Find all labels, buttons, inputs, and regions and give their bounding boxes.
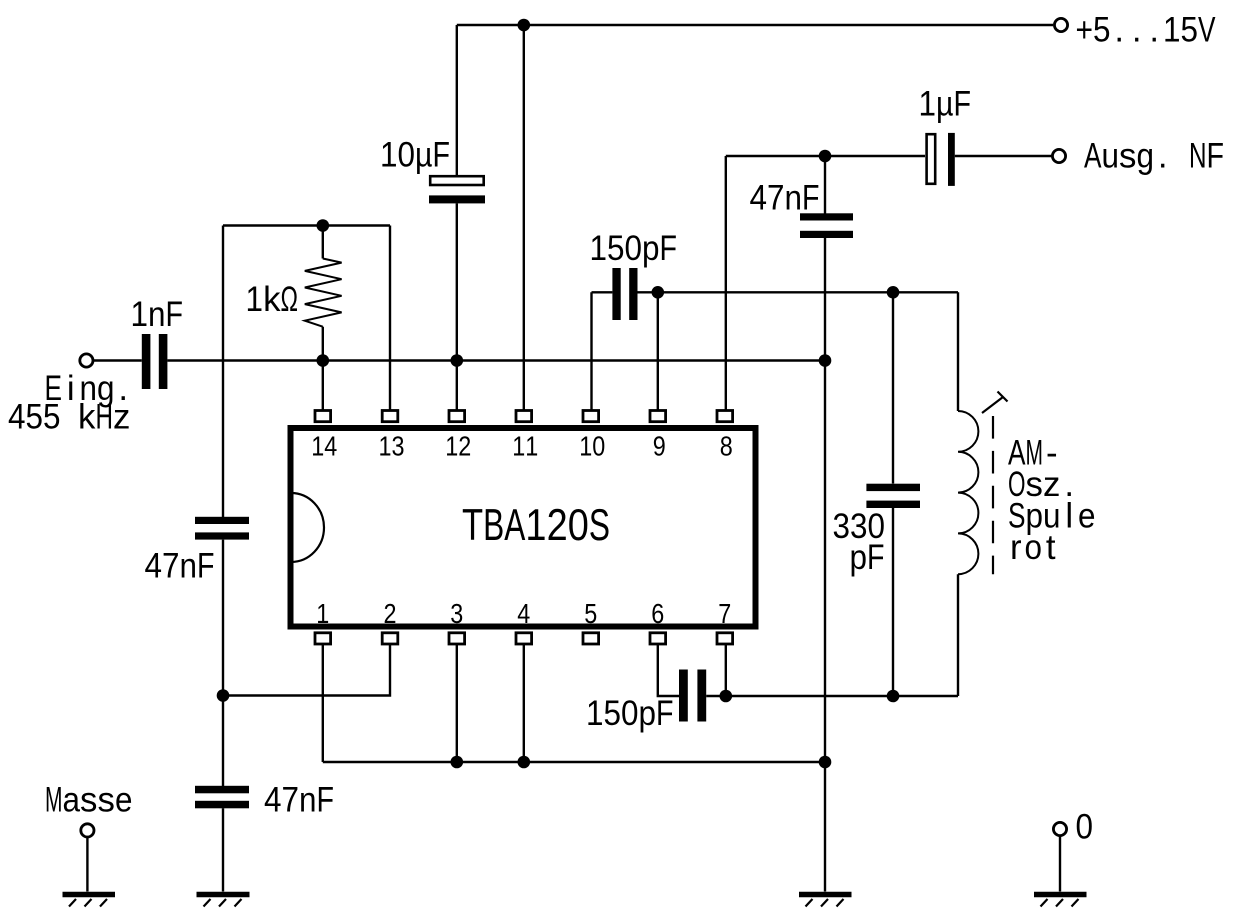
pin 9 square <box>650 411 666 422</box>
terminal 0 <box>1053 822 1066 835</box>
capacitor C 10uF electrolytic <box>429 176 485 203</box>
wire input rail y360 <box>167 359 825 361</box>
svg-text:150pF: 150pF <box>586 694 674 733</box>
wire 150pF to coil bottom <box>706 695 958 697</box>
terminal Eing 455kHz <box>80 354 93 367</box>
svg-text:7: 7 <box>718 598 731 629</box>
wire coil branch bottom <box>957 574 959 696</box>
node junction y762 rail end <box>819 756 832 769</box>
svg-text:1µF: 1µF <box>919 84 972 123</box>
wire 47nF branch upper <box>824 156 826 214</box>
node junction y360 rail end <box>819 354 832 367</box>
wire left branch x223 middle <box>222 540 224 786</box>
wire 1uF to output terminal <box>955 155 1052 157</box>
svg-text:1kΩ: 1kΩ <box>246 280 299 319</box>
svg-text:8: 8 <box>720 431 733 462</box>
wire pin 6 down to 150pF <box>658 644 679 696</box>
node junction tank rail pin 9 <box>652 286 665 299</box>
node junction y360 pin 14 <box>317 354 330 367</box>
wire pin 14 up <box>322 361 324 411</box>
svg-text:2: 2 <box>384 598 397 629</box>
node junction pin 4 rail <box>518 756 531 769</box>
svg-text:10µF: 10µF <box>380 136 450 175</box>
node junction y360 pin 12 <box>451 354 464 367</box>
wire bottom rail y762 <box>323 761 825 763</box>
capacitor C 47nF bottom <box>195 786 249 809</box>
wire supply rail to pin 11 <box>523 25 525 411</box>
wire pin 8 up to output branch <box>725 156 727 411</box>
terminal Ausg. NF <box>1052 149 1065 162</box>
pin 14 square <box>315 411 331 422</box>
svg-text:+5...15V: +5...15V <box>1076 11 1217 50</box>
pin 5 square <box>583 633 599 644</box>
svg-text:5: 5 <box>584 598 597 629</box>
wire pin 9 up <box>657 292 659 410</box>
wire top left rail y225 <box>223 224 390 226</box>
wire 330pF branch top <box>892 292 894 483</box>
wire input terminal to 1nF <box>94 359 142 361</box>
pin 8 square <box>717 411 733 422</box>
inductor L AM oscillator coil <box>958 411 978 574</box>
capacitor C 330pF <box>866 484 920 508</box>
pin 7 square <box>717 633 733 644</box>
svg-text:6: 6 <box>651 598 664 629</box>
node junction tank rail 330pF <box>887 286 900 299</box>
pin 2 square <box>382 633 398 644</box>
svg-text:4: 4 <box>517 598 530 629</box>
wire pin 10 up <box>590 292 592 410</box>
capacitor C 1nF input <box>142 334 168 389</box>
svg-text:14: 14 <box>311 431 337 462</box>
wire pin 1 down <box>322 644 324 762</box>
wire pin 13 up <box>389 226 391 411</box>
node junction pin 7 150pF <box>720 690 733 703</box>
wire pin 4 down <box>523 644 525 762</box>
svg-text:12: 12 <box>445 431 471 462</box>
adjustable core arrow <box>982 392 1008 414</box>
pin 11 square <box>516 411 532 422</box>
wire 10uF bottom to pin 12 <box>456 203 458 410</box>
node junction pin 3 rail <box>451 756 464 769</box>
resistor R 1kOhm <box>305 226 342 361</box>
wire left branch x223 upper <box>222 226 224 518</box>
svg-text:13: 13 <box>379 431 405 462</box>
capacitor C 150pF bottom <box>679 670 706 722</box>
wire 0 terminal to ground <box>1059 836 1061 892</box>
wire coil branch top <box>957 292 959 411</box>
pin 10 square <box>583 411 599 422</box>
svg-text:TBA120S: TBA120S <box>462 501 610 550</box>
wire output branch to 1uF <box>726 155 925 157</box>
svg-text:1: 1 <box>316 598 329 629</box>
svg-text:11: 11 <box>512 431 538 462</box>
ground symbol right <box>799 895 852 907</box>
svg-text:47nF: 47nF <box>264 781 334 820</box>
node junction 330pF bottom <box>887 690 900 703</box>
svg-text:1nF: 1nF <box>131 295 184 334</box>
op-amp IC U1 TBA120S body <box>291 428 756 627</box>
node junction x223 pin 2 rail <box>217 689 230 702</box>
wire pin 3 down <box>456 644 458 762</box>
wire top supply rail <box>457 24 1053 26</box>
pin 13 square <box>382 411 398 422</box>
svg-text:47nF: 47nF <box>750 179 820 218</box>
wire 47nF branch lower to ground <box>824 238 826 892</box>
capacitor C 47nF top right <box>800 213 853 238</box>
wire pin 2 down and left to x223 <box>223 644 390 696</box>
pin 4 square <box>516 633 532 644</box>
wire tank rail right of 150pF <box>638 291 959 293</box>
svg-text:150pF: 150pF <box>590 229 678 268</box>
svg-text:Masse: Masse <box>45 781 133 820</box>
ground symbol Masse <box>63 895 116 907</box>
capacitor C 1uF electrolytic <box>927 133 955 186</box>
wire pin 7 down <box>725 644 727 696</box>
node junction output branch to 47nF <box>819 150 832 163</box>
svg-text:47nF: 47nF <box>145 547 215 586</box>
node junction supply rail to pin 11 <box>518 19 531 32</box>
svg-text:pF: pF <box>850 538 885 577</box>
svg-text:3: 3 <box>450 598 463 629</box>
wire Masse terminal to ground <box>86 837 88 892</box>
svg-text:Ausg.NF: Ausg.NF <box>1084 137 1224 176</box>
pin 1 square <box>315 633 331 644</box>
IC pin 1 notch <box>291 493 324 562</box>
wire tank rail left stub to pin 10 <box>592 291 613 293</box>
wire supply rail down to 10uF <box>456 25 458 176</box>
svg-text:9: 9 <box>653 431 666 462</box>
capacitor C 47nF left <box>195 517 249 540</box>
wire left branch x223 to ground <box>222 808 224 891</box>
ground symbol 47nF <box>197 895 250 907</box>
adjustable core dashed line <box>992 416 994 574</box>
node junction resistor top <box>317 219 330 232</box>
pin 12 square <box>449 411 465 422</box>
terminal Masse <box>81 824 94 837</box>
svg-text:10: 10 <box>579 431 605 462</box>
pin 3 square <box>449 633 465 644</box>
terminal +5...15V <box>1054 18 1067 31</box>
capacitor C 150pF top <box>612 268 637 320</box>
svg-text:rot: rot <box>1010 528 1056 567</box>
wire 330pF branch bottom <box>892 508 894 696</box>
pin 6 square <box>650 633 666 644</box>
ground symbol 0 <box>1034 895 1087 907</box>
svg-text:0: 0 <box>1076 808 1094 847</box>
